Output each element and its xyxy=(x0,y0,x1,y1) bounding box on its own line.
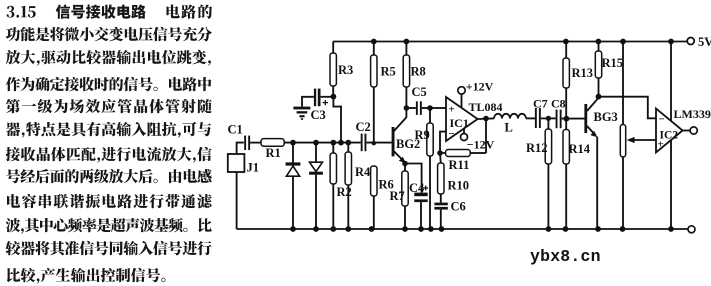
capacitor C5 xyxy=(406,85,430,115)
wire IC1 output xyxy=(478,117,494,120)
wire C8 to BG3 base xyxy=(562,118,585,120)
svg-text:TL084: TL084 xyxy=(469,100,503,114)
resistor R1 xyxy=(261,139,284,160)
resistor R11 feedback xyxy=(440,150,486,173)
resistor R4 xyxy=(345,143,371,229)
svg-text:+12V: +12V xyxy=(466,80,494,94)
wire L to C7 xyxy=(526,117,535,119)
wire C7 to C8 xyxy=(541,117,556,119)
svg-text:R10: R10 xyxy=(448,179,470,193)
terminal -12V xyxy=(461,128,495,151)
svg-text:R4: R4 xyxy=(355,165,371,179)
wire C3 to ground symbol xyxy=(302,97,314,107)
wire IC1 inverting input xyxy=(440,132,446,153)
node BG3 collector junction xyxy=(596,94,602,100)
node C5/R9 junction xyxy=(427,105,433,111)
wire top power rail xyxy=(333,41,687,43)
transistor BG2 xyxy=(392,108,421,163)
node base bias junction xyxy=(564,116,570,122)
terminal 5V supply xyxy=(687,35,711,49)
node C7/C8 junction xyxy=(546,116,551,121)
resistor R7 xyxy=(390,164,409,230)
potentiometer reference divider xyxy=(620,42,625,230)
node R3/C3 junction xyxy=(331,94,337,100)
resistor R15 xyxy=(595,42,623,97)
resistor R12 xyxy=(526,118,552,229)
svg-text:C1: C1 xyxy=(228,123,243,137)
terminal +12V xyxy=(458,80,494,108)
wire potentiometer wiper to IC2 noninverting input xyxy=(627,137,656,143)
svg-text:C5: C5 xyxy=(412,85,427,99)
wire C2 to BG2 base xyxy=(366,142,391,144)
node bottom rail junction dots xyxy=(290,226,674,232)
resistor R5 xyxy=(371,42,396,143)
svg-text:R7: R7 xyxy=(390,189,405,203)
wire 5V pull-up line xyxy=(670,42,672,230)
wire to IC1 noninverting input xyxy=(430,107,446,109)
svg-text:5V: 5V xyxy=(698,35,711,49)
wire J1 top to C1 xyxy=(237,143,244,154)
terminal ground/output common xyxy=(688,226,695,233)
capacitor C7 xyxy=(533,97,548,129)
node top rail junction dots xyxy=(371,39,674,45)
svg-text:C4: C4 xyxy=(409,181,425,195)
svg-text:R3: R3 xyxy=(338,63,353,77)
ground symbol xyxy=(293,107,310,120)
node BG2 collector junction xyxy=(404,105,410,111)
node input line junctions xyxy=(290,140,351,146)
svg-text:C6: C6 xyxy=(451,200,466,214)
inductor L xyxy=(494,114,526,135)
resistor R6 xyxy=(371,166,394,229)
op-amp IC1 xyxy=(446,97,478,141)
wire input node line R1 to C2 xyxy=(284,142,361,144)
wire emitter to C4 xyxy=(405,164,422,193)
capacitor C8 xyxy=(551,96,566,128)
diode D2 clamp down xyxy=(309,143,323,229)
svg-text:R13: R13 xyxy=(572,66,594,80)
wire R3 bias to input node xyxy=(333,97,341,143)
resistor R14 xyxy=(563,119,591,229)
transistor BG3 xyxy=(584,98,617,229)
svg-text:+: + xyxy=(449,104,455,116)
svg-text:R9: R9 xyxy=(415,128,430,142)
svg-text:R5: R5 xyxy=(381,65,396,79)
svg-text:R14: R14 xyxy=(569,142,591,156)
node BG2 emitter junction xyxy=(402,161,408,167)
svg-text:R2: R2 xyxy=(337,185,352,199)
resistor R13 xyxy=(563,42,593,119)
svg-text:IC1: IC1 xyxy=(450,116,469,130)
resistor R9 xyxy=(415,108,434,229)
node IC1 output junction xyxy=(483,116,489,122)
capacitor C6 xyxy=(434,194,465,229)
node feedback junction xyxy=(437,150,443,156)
capacitor C2 xyxy=(356,120,371,151)
resistor R8 xyxy=(403,42,426,109)
wire BG3 collector to IC2 inverting input xyxy=(599,97,657,119)
description text block (Chinese paragraph rendered as vector paths) xyxy=(5,4,212,283)
transducer J1 xyxy=(228,154,259,175)
svg-text:ybx8.cn: ybx8.cn xyxy=(530,247,601,266)
capacitor C4 electrolytic xyxy=(409,181,428,229)
svg-text:C3: C3 xyxy=(311,108,326,122)
resistor R10 xyxy=(438,153,469,194)
svg-text:BG3: BG3 xyxy=(594,110,618,124)
svg-text:R12: R12 xyxy=(526,141,548,155)
svg-text:−12V: −12V xyxy=(467,138,495,152)
node R5/R6 bias junction xyxy=(372,141,376,145)
wire feedback to output xyxy=(485,118,487,153)
capacitor C3 electrolytic xyxy=(311,89,334,122)
svg-text:R11: R11 xyxy=(449,158,470,172)
wire J1 bottom to ground rail xyxy=(236,172,238,229)
svg-text:−: − xyxy=(659,114,665,126)
svg-text:LM339: LM339 xyxy=(674,107,711,121)
svg-text:R15: R15 xyxy=(602,56,624,70)
wire bottom ground rail xyxy=(237,228,688,230)
svg-text:R1: R1 xyxy=(266,146,281,160)
svg-text:C7: C7 xyxy=(533,97,548,111)
svg-text:L: L xyxy=(505,121,513,135)
svg-text:C2: C2 xyxy=(356,120,371,134)
resistor R3 xyxy=(330,42,353,97)
svg-text:R8: R8 xyxy=(411,65,426,79)
svg-text:J1: J1 xyxy=(247,161,260,175)
svg-text:IC2: IC2 xyxy=(660,130,679,142)
wire C1 to R1 xyxy=(250,142,261,144)
terminal IC2 output xyxy=(683,127,698,134)
diode D1 clamp up xyxy=(286,143,301,229)
comparator IC2 xyxy=(656,109,683,153)
resistor R2 xyxy=(330,143,352,229)
svg-text:C8: C8 xyxy=(551,96,566,110)
capacitor C1 xyxy=(228,123,251,151)
